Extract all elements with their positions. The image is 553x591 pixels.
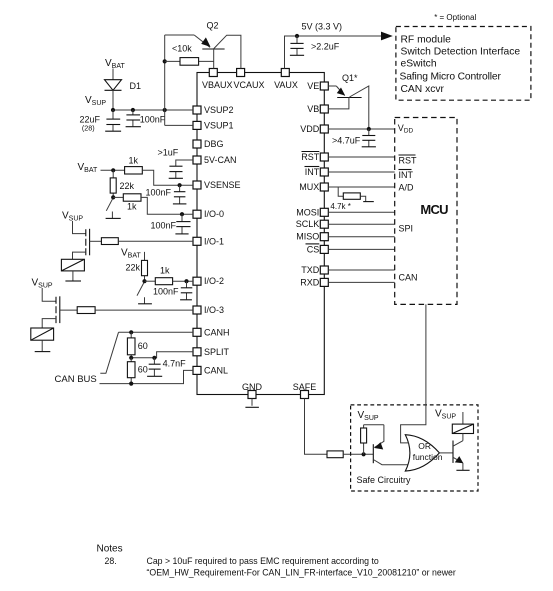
optional modules box (dashed): [396, 27, 531, 101]
resistor (safe pull-up): [361, 425, 367, 455]
svg-text:VB: VB: [307, 104, 319, 114]
wire CANH: [119, 331, 194, 333]
svg-text:RF module: RF module: [401, 34, 452, 45]
capacitor >4.7uF: [332, 129, 376, 147]
ground (I/O-3 relay): [35, 340, 51, 351]
transistor Q5 (PNP, safe): [373, 425, 407, 465]
pin MISO: [296, 232, 328, 242]
svg-text:INT: INT: [305, 167, 320, 177]
MOSFET M1 (P-ch, I/O-1): [73, 229, 102, 259]
capacitor 22uF: [80, 110, 122, 133]
wire MISO: [328, 236, 394, 238]
node I/O-2 switch junction: [142, 279, 146, 283]
svg-text:100nF: 100nF: [153, 287, 179, 297]
svg-text:28.: 28.: [105, 556, 117, 566]
pin VSENSE: [193, 180, 241, 190]
pin 5V-CAN: [193, 155, 237, 165]
wire VBAT to D1: [112, 69, 114, 80]
svg-text:GND: GND: [242, 382, 263, 392]
svg-text:DBG: DBG: [204, 139, 224, 149]
resistor (I/O-1 gate): [101, 238, 118, 245]
OR gate (safe logic): [405, 435, 442, 471]
ground (I/O-1 relay): [65, 271, 81, 281]
resistor 22k (vertical): [110, 170, 134, 197]
svg-text:MCU: MCU: [420, 202, 448, 217]
svg-text:VSUP2: VSUP2: [204, 105, 234, 115]
transistor Q6 (NPN, safe): [453, 441, 463, 471]
svg-text:eSwitch: eSwitch: [401, 58, 437, 69]
svg-text:I/O-3: I/O-3: [204, 305, 224, 315]
svg-text:SAFE: SAFE: [293, 382, 317, 392]
relay load (I/O-3): [31, 328, 54, 340]
wire D1 to VSUP node: [112, 90, 114, 110]
wire SCLK: [328, 223, 394, 225]
node CANH junction: [129, 330, 133, 334]
svg-text:Switch Detection Interface: Switch Detection Interface: [401, 46, 521, 57]
wire base resistor line: [165, 60, 214, 62]
svg-text:60: 60: [138, 365, 148, 375]
resistor 60 (upper): [127, 332, 147, 358]
svg-text:RST: RST: [301, 152, 320, 162]
resistor (I/O-3 gate): [77, 307, 95, 314]
pin SPLIT: [193, 347, 230, 357]
pin VSUP2: [193, 105, 234, 115]
svg-text:100nF: 100nF: [146, 188, 172, 198]
svg-text:D1: D1: [130, 81, 142, 91]
svg-text:MISO: MISO: [296, 232, 319, 242]
svg-text:I/O-0: I/O-0: [204, 209, 224, 219]
capacitor >1uF (5V-CAN): [158, 148, 194, 179]
svg-text:INT: INT: [399, 170, 414, 180]
pin INT (active low): [305, 167, 329, 178]
capacitor 100nF (I/O-0): [151, 214, 191, 234]
net VSUP (I/O-3 branch): [32, 278, 53, 290]
svg-text:VDD: VDD: [300, 124, 320, 134]
pin I/O-1: [193, 236, 224, 246]
pin I/O-0: [193, 209, 224, 219]
MCU box (dashed): [395, 118, 457, 305]
svg-text:VE: VE: [307, 81, 319, 91]
svg-text:22k: 22k: [126, 263, 141, 273]
svg-text:VAUX: VAUX: [274, 80, 298, 90]
wire VSUP rail to VSUP2: [113, 109, 193, 111]
svg-text:<10k: <10k: [172, 44, 192, 54]
wire RXD: [328, 281, 394, 283]
switch S1: [106, 199, 121, 219]
wire MCU to OR input: [401, 304, 426, 443]
resistor 1k (I/O-2): [145, 266, 173, 285]
svg-text:VCAUX: VCAUX: [233, 80, 264, 90]
MOSFET M2 (P-ch, I/O-3): [42, 296, 77, 328]
svg-text:CS: CS: [307, 244, 320, 254]
pin GND: [242, 382, 263, 399]
svg-text:>1uF: >1uF: [158, 148, 179, 158]
net VBAT (D1 branch): [105, 58, 125, 70]
node VSENSE cap junction: [178, 183, 182, 187]
capacitor 100nF (I/O-2): [153, 281, 192, 300]
svg-text:100nF: 100nF: [140, 114, 166, 124]
wire VSUP to M2 source: [42, 288, 56, 301]
pin MUX: [299, 182, 328, 192]
svg-text:CANL: CANL: [204, 365, 228, 375]
svg-text:22k: 22k: [120, 181, 135, 191]
wire VE to Q1: [328, 85, 336, 87]
svg-text:Q2: Q2: [207, 21, 219, 31]
svg-text:SPLIT: SPLIT: [204, 347, 230, 357]
wire switch node to 1k: [113, 196, 123, 198]
pin RST (active low): [301, 152, 328, 163]
pin CS (active low): [306, 244, 329, 255]
wire RST: [328, 156, 394, 158]
svg-text:60: 60: [138, 341, 148, 351]
svg-text:1k: 1k: [160, 266, 170, 276]
capacitor 100nF (VSENSE): [146, 185, 187, 204]
pin VCAUX: [233, 69, 264, 91]
ground (Q6 emitter): [456, 469, 469, 471]
node VDD junction: [367, 127, 371, 131]
pin RXD: [300, 277, 328, 287]
svg-text:SPI: SPI: [399, 224, 414, 234]
node midpoint junctions: [129, 356, 156, 360]
node safe base junction: [362, 452, 366, 456]
svg-text:5V-CAN: 5V-CAN: [204, 155, 237, 165]
wire SAFE to safe circuitry: [305, 399, 328, 455]
svg-text:Q1*: Q1*: [342, 73, 358, 83]
pin SCLK: [296, 219, 329, 229]
wire CANL bus: [100, 370, 194, 383]
wire VSUP to relay (safe): [462, 412, 464, 424]
wire TXD: [328, 269, 394, 271]
svg-text:A/D: A/D: [399, 183, 415, 193]
svg-text:1k: 1k: [129, 156, 139, 166]
wire VBAT to 1k: [101, 169, 125, 171]
pin MOSI: [296, 207, 328, 217]
wire split midpoint: [131, 352, 193, 358]
wire INT: [328, 171, 394, 173]
node base-resistor junction: [163, 59, 167, 63]
svg-text:4.7k *: 4.7k *: [330, 202, 350, 211]
wire resistor to Q5 base: [343, 453, 373, 455]
svg-text:“OEM_HW_Requirement-For CAN_LI: “OEM_HW_Requirement-For CAN_LIN_FR-inter…: [147, 568, 456, 578]
wire Q2 emitter rail: [165, 34, 195, 36]
resistor (SAFE series): [327, 451, 343, 458]
node I/O-0 cap junction: [180, 212, 184, 216]
ground at GND pin: [245, 399, 259, 408]
arrow into optional module box: [381, 32, 393, 41]
relay load (safe): [452, 424, 473, 433]
net VSUP (safe, right): [435, 409, 456, 421]
diode D1: [105, 80, 142, 91]
svg-text:>4.7uF: >4.7uF: [332, 136, 361, 146]
safe circuitry box (dashed): [351, 405, 478, 491]
resistor 1k (I/O-0): [123, 194, 141, 212]
capacitor 4.7nF (SPLIT): [147, 358, 186, 377]
switch S2: [137, 283, 152, 304]
wire 1k to I/O-0: [141, 197, 193, 214]
transistor Q1* (PNP): [328, 73, 369, 129]
svg-text:Notes: Notes: [97, 544, 123, 555]
net VBAT (I/O-2 branch): [121, 248, 141, 260]
svg-text:VSUP1: VSUP1: [204, 120, 234, 130]
svg-text:Cap > 10uF required to pass EM: Cap > 10uF required to pass EMC requirem…: [147, 556, 379, 566]
pin VE: [307, 81, 328, 91]
node switch junction: [111, 195, 115, 199]
resistor <10k: [172, 44, 199, 66]
svg-text:VBAUX: VBAUX: [202, 80, 233, 90]
net VSUP label: [85, 95, 106, 107]
pin DBG: [193, 139, 224, 149]
svg-text:RST: RST: [399, 156, 418, 166]
svg-text:VSENSE: VSENSE: [204, 180, 241, 190]
pin I/O-2: [193, 276, 224, 286]
resistor 1k (VSENSE): [125, 156, 143, 175]
capacitor >2.2uF: [290, 36, 340, 55]
svg-text:function: function: [413, 452, 443, 462]
svg-text:TXD: TXD: [301, 265, 320, 275]
svg-text:I/O-2: I/O-2: [204, 276, 224, 286]
svg-text:CANH: CANH: [204, 327, 230, 337]
wire 1k to VSENSE: [142, 170, 193, 185]
wire 1k to I/O-2: [173, 280, 193, 282]
node VSUP junction dots: [111, 108, 167, 112]
wire VSUP to Q3 source: [73, 221, 86, 234]
wire VSUP1: [165, 124, 193, 126]
wire gate resistor to I/O-3: [95, 309, 193, 311]
wire VDD to MCU: [328, 128, 394, 130]
pin VAUX: [274, 69, 298, 91]
pin VB: [307, 104, 328, 114]
node CANL junction: [129, 382, 133, 386]
wire VSUP vertical rail to Q2: [164, 35, 166, 125]
IC body (SBC): [197, 73, 324, 395]
net VSUP (safe, left): [358, 410, 379, 422]
notes text: [97, 544, 456, 578]
resistor 22k (I/O-2): [126, 252, 148, 281]
svg-text:CAN xcvr: CAN xcvr: [401, 84, 445, 95]
svg-text:MUX: MUX: [299, 182, 319, 192]
svg-text:4.7nF: 4.7nF: [163, 359, 187, 369]
pin VSUP1: [193, 120, 234, 130]
wire MOSI: [328, 211, 394, 213]
pin CANL: [193, 365, 228, 375]
net VBAT (VSENSE branch): [78, 162, 98, 174]
svg-text:(28): (28): [82, 124, 95, 133]
wire MUX to A/D: [328, 186, 394, 188]
wire CS: [328, 248, 394, 250]
transistor Q2 (PNP): [194, 21, 241, 69]
svg-text:100nF: 100nF: [151, 221, 177, 231]
pin I/O-3: [193, 305, 224, 315]
wire 5V rail: [285, 36, 382, 69]
svg-text:* = Optional: * = Optional: [434, 13, 476, 22]
svg-text:Safe Circuitry: Safe Circuitry: [357, 475, 412, 485]
resistor 4.7k* (optional pull): [330, 187, 373, 211]
svg-text:Safing Micro Controller: Safing Micro Controller: [400, 72, 502, 83]
wire OR output to Q6 base: [439, 452, 453, 454]
node VBAT/22k junction: [111, 168, 115, 172]
resistor 60 (lower): [127, 358, 147, 384]
svg-text:I/O-1: I/O-1: [204, 236, 224, 246]
svg-text:>2.2uF: >2.2uF: [311, 42, 340, 52]
pin CANH: [193, 327, 230, 337]
node 5V cap junction: [295, 34, 299, 38]
pin SAFE: [293, 382, 317, 399]
net VSUP (I/O-1 branch): [62, 211, 83, 223]
svg-text:1k: 1k: [127, 202, 137, 212]
wire CAN BUS stub: [100, 332, 118, 373]
node I/O-2 cap junction: [184, 279, 188, 283]
relay load (I/O-1): [61, 259, 84, 271]
svg-text:MOSI: MOSI: [296, 207, 319, 217]
capacitor 100nF (VSUP): [126, 110, 166, 127]
wire gate resistor to I/O-1: [118, 240, 193, 242]
wire relay to Q6 collector: [462, 434, 464, 441]
svg-text:CAN: CAN: [399, 273, 418, 283]
pin VDD: [300, 124, 328, 134]
svg-text:CAN BUS: CAN BUS: [55, 374, 97, 385]
svg-text:OR: OR: [418, 441, 431, 451]
pin TXD: [301, 265, 328, 275]
svg-text:RXD: RXD: [300, 277, 320, 287]
wire VSUP bar (safe left): [364, 424, 384, 426]
svg-text:5V (3.3 V): 5V (3.3 V): [302, 22, 343, 32]
pin VBAUX: [202, 69, 233, 91]
svg-text:SCLK: SCLK: [296, 219, 320, 229]
